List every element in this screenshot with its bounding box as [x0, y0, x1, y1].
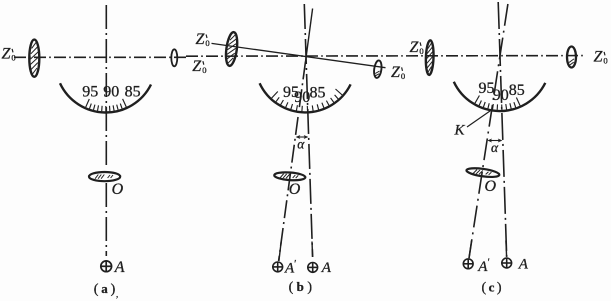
svg-text:′: ′ [294, 259, 296, 270]
svg-text:α: α [297, 137, 305, 152]
wire: plumb end segment into A (b) [311, 242, 314, 257]
svg-text:95: 95 [82, 84, 98, 101]
lens eyepiece small (b) [373, 60, 382, 78]
wire: plumb vertical line dash-dot (c) [498, 2, 507, 257]
svg-text:a: a [101, 281, 108, 296]
svg-text:90: 90 [493, 87, 509, 104]
svg-text:,: , [116, 289, 118, 299]
wire: tilted sight line solid (b) [212, 43, 386, 67]
svg-text:): ) [111, 282, 116, 297]
wire: axis end segment into A-prime (c) [469, 241, 472, 258]
lens L1 objective hatched (b) [224, 31, 239, 66]
angle alpha arrow (b) [297, 136, 308, 138]
svg-text:0: 0 [202, 65, 206, 75]
svg-text:90: 90 [294, 89, 310, 106]
lens O rotation axis (c) [466, 167, 500, 179]
svg-text:0: 0 [401, 71, 405, 81]
wire: horizontal line of sight dash-dot (b)(c) [186, 55, 586, 58]
svg-text:): ) [497, 281, 502, 296]
wire: axis end segment into A-prime (b) [279, 242, 281, 261]
svg-text:0: 0 [603, 56, 607, 66]
wire: plumb end segment into A (c) [505, 241, 508, 257]
svg-text:Z: Z [2, 46, 12, 63]
svg-text:(: ( [289, 280, 294, 295]
scale arc with graduations (c) [454, 82, 546, 111]
ground point A plumb mark (c) [502, 258, 512, 268]
wire: plumb vertical line dash-dot (b) [304, 4, 312, 257]
svg-text:′: ′ [488, 258, 490, 269]
svg-text:0: 0 [11, 53, 15, 63]
svg-text:(: ( [482, 281, 487, 296]
wire: vertical axis dash-dot (a) [105, 5, 107, 168]
svg-text:Z: Z [391, 64, 401, 81]
svg-text:(: ( [94, 282, 99, 297]
ground point A plumb mark (b) [308, 263, 318, 273]
svg-text:Z: Z [594, 49, 604, 66]
ground point A-prime plumb mark (c) [463, 259, 473, 269]
svg-text:0: 0 [419, 46, 423, 56]
svg-text:0: 0 [205, 38, 209, 48]
svg-text:O: O [289, 181, 301, 198]
lens L1 objective hatched (c) [425, 40, 434, 75]
scale arc with graduations (b) [260, 83, 351, 112]
svg-text:90: 90 [103, 84, 119, 101]
wire: tilted standing axis solid upper part (b) [306, 9, 313, 62]
svg-text:O: O [485, 178, 497, 195]
svg-text:A: A [518, 256, 529, 272]
svg-text:85: 85 [125, 84, 141, 101]
index mark K pointer line (c) [467, 111, 490, 127]
lens eyepiece small (a) [171, 49, 177, 66]
svg-text:): ) [307, 280, 312, 295]
svg-text:α: α [491, 140, 499, 155]
wire: horizontal sight line dash-dot (a) [14, 56, 186, 58]
svg-text:b: b [297, 279, 304, 294]
svg-text:Z: Z [196, 31, 206, 48]
angle alpha arrow (c) [488, 140, 501, 142]
wire: tilted standing axis dash-dot lower part (b) [279, 62, 306, 262]
svg-text:A: A [321, 260, 332, 276]
svg-text:O: O [112, 181, 124, 198]
svg-text:K: K [454, 123, 466, 139]
lens O rotation axis (b) [274, 171, 306, 181]
svg-text:85: 85 [310, 84, 326, 101]
lens O rotation axis (a) [89, 172, 120, 181]
ground point A plumb mark (a) [101, 261, 112, 272]
lens L1 objective hatched (a) [29, 40, 39, 77]
svg-text:A: A [114, 259, 125, 276]
scale arc with graduations (a) [60, 83, 151, 112]
svg-text:c: c [489, 280, 495, 295]
wire: tilted standing axis dash-dot (c) [469, 4, 508, 258]
svg-text:85: 85 [509, 82, 525, 99]
svg-text:Z: Z [410, 39, 420, 56]
svg-text:Z: Z [192, 58, 202, 75]
ground point A-prime plumb mark (b) [273, 262, 283, 272]
lens eyepiece right (c) [567, 47, 576, 68]
